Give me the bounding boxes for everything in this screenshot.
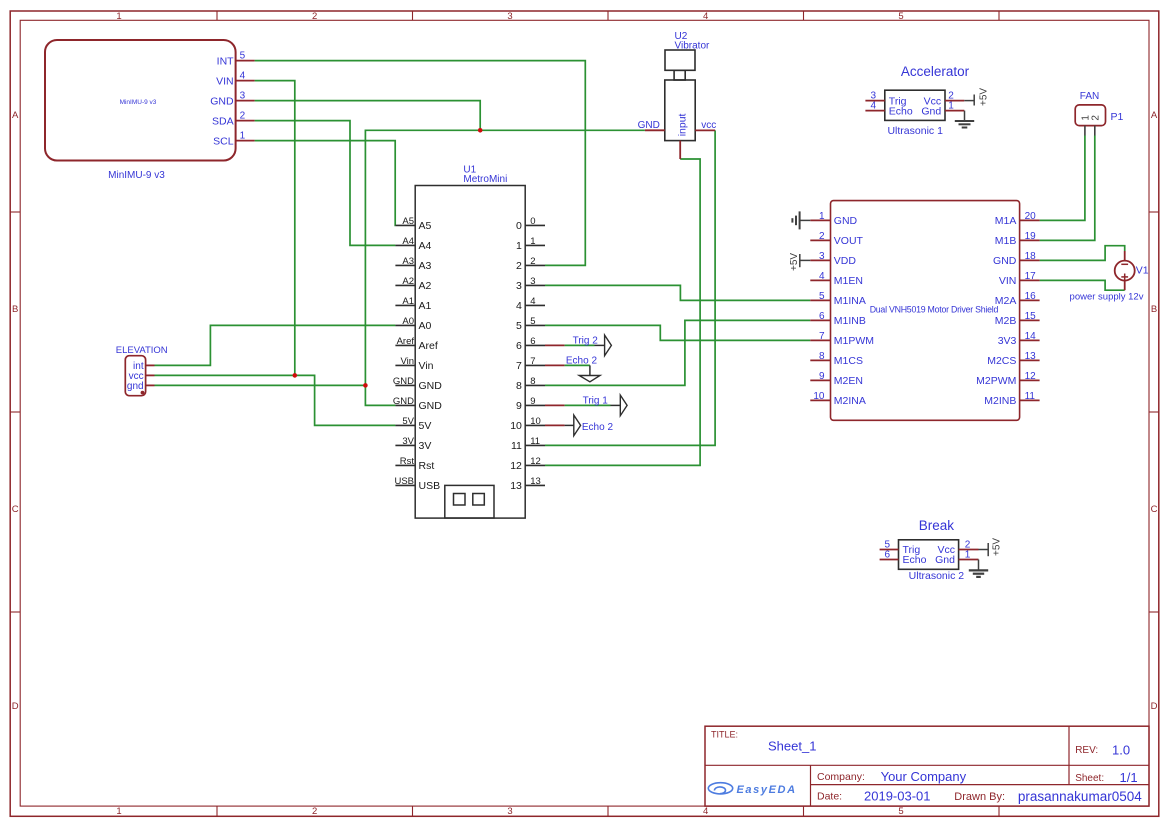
svg-text:Trig 2: Trig 2 — [573, 335, 599, 346]
svg-text:SCL: SCL — [213, 135, 234, 147]
svg-text:P1: P1 — [1111, 111, 1124, 123]
svg-text:7: 7 — [819, 331, 825, 342]
svg-text:A2: A2 — [402, 276, 414, 287]
svg-text:1: 1 — [948, 101, 954, 112]
svg-text:2: 2 — [516, 260, 522, 272]
svg-text:10: 10 — [530, 416, 541, 427]
svg-text:Your Company: Your Company — [881, 769, 967, 784]
svg-text:+5V: +5V — [992, 538, 1003, 556]
svg-text:REV:: REV: — [1075, 745, 1098, 756]
svg-text:6: 6 — [516, 340, 522, 352]
svg-text:Gnd: Gnd — [921, 105, 941, 117]
svg-text:4: 4 — [703, 11, 708, 22]
svg-text:5V: 5V — [402, 416, 414, 427]
svg-text:5: 5 — [898, 11, 903, 22]
svg-text:5: 5 — [819, 291, 825, 302]
svg-text:M2INB: M2INB — [984, 395, 1016, 407]
svg-text:D: D — [1151, 701, 1158, 712]
svg-text:V1: V1 — [1136, 265, 1149, 277]
svg-text:MinIMU-9 v3: MinIMU-9 v3 — [108, 170, 165, 181]
svg-text:1: 1 — [116, 11, 121, 22]
svg-text:+5V: +5V — [979, 88, 990, 106]
svg-text:3: 3 — [530, 276, 535, 287]
svg-text:Drawn By:: Drawn By: — [954, 791, 1005, 803]
svg-text:input: input — [676, 113, 688, 136]
svg-text:1: 1 — [819, 211, 825, 222]
svg-text:GND: GND — [419, 380, 443, 392]
svg-text:Gnd: Gnd — [935, 554, 955, 566]
svg-text:A: A — [1151, 110, 1158, 121]
svg-text:0: 0 — [516, 220, 522, 232]
svg-text:A3: A3 — [402, 256, 414, 267]
svg-text:EasyEDA: EasyEDA — [737, 784, 797, 796]
svg-text:2: 2 — [819, 231, 825, 242]
svg-text:3: 3 — [507, 11, 512, 22]
svg-text:11: 11 — [511, 440, 522, 452]
svg-text:6: 6 — [530, 336, 535, 347]
svg-text:M2INA: M2INA — [834, 395, 866, 407]
svg-text:GND: GND — [993, 255, 1017, 267]
svg-text:13: 13 — [1025, 351, 1037, 362]
svg-text:16: 16 — [1025, 291, 1037, 302]
svg-text:C: C — [1151, 504, 1158, 515]
svg-text:M1A: M1A — [995, 215, 1017, 227]
svg-text:FAN: FAN — [1080, 91, 1099, 102]
svg-text:GND: GND — [393, 396, 414, 407]
svg-text:GND: GND — [393, 376, 414, 387]
svg-text:8: 8 — [516, 380, 522, 392]
svg-text:4: 4 — [819, 271, 825, 282]
svg-text:M2EN: M2EN — [834, 375, 863, 387]
svg-text:3: 3 — [819, 251, 825, 262]
svg-text:9: 9 — [530, 396, 535, 407]
svg-text:ELEVATION: ELEVATION — [116, 345, 168, 356]
svg-text:Sheet_1: Sheet_1 — [768, 739, 816, 754]
svg-text:SDA: SDA — [212, 115, 234, 127]
svg-text:6: 6 — [884, 550, 890, 561]
svg-text:A5: A5 — [402, 216, 414, 227]
svg-text:19: 19 — [1025, 231, 1037, 242]
svg-text:5: 5 — [530, 316, 535, 327]
svg-text:3V: 3V — [402, 436, 414, 447]
svg-text:A3: A3 — [419, 260, 432, 272]
svg-text:3: 3 — [516, 280, 522, 292]
svg-text:20: 20 — [1025, 211, 1037, 222]
svg-text:2: 2 — [530, 256, 535, 267]
svg-text:4: 4 — [516, 300, 522, 312]
svg-text:M2B: M2B — [995, 315, 1017, 327]
svg-text:8: 8 — [819, 351, 825, 362]
svg-text:Vin: Vin — [400, 356, 414, 367]
svg-text:M1PWM: M1PWM — [834, 335, 874, 347]
svg-text:8: 8 — [530, 376, 535, 387]
svg-text:1: 1 — [965, 550, 971, 561]
svg-text:Rst: Rst — [419, 460, 435, 472]
svg-text:6: 6 — [819, 311, 825, 322]
svg-text:VIN: VIN — [999, 275, 1017, 287]
svg-text:GND: GND — [834, 215, 858, 227]
svg-text:VDD: VDD — [834, 255, 857, 267]
svg-text:5: 5 — [516, 320, 522, 332]
svg-text:B: B — [12, 304, 18, 315]
svg-text:4: 4 — [870, 101, 876, 112]
svg-text:Date:: Date: — [817, 791, 842, 803]
svg-text:3V3: 3V3 — [998, 335, 1017, 347]
svg-text:10: 10 — [510, 420, 522, 432]
svg-text:USB: USB — [419, 480, 441, 492]
svg-text:7: 7 — [530, 356, 535, 367]
svg-text:2: 2 — [1091, 115, 1102, 121]
svg-text:1.0: 1.0 — [1112, 743, 1130, 758]
svg-text:13: 13 — [530, 476, 541, 487]
svg-text:18: 18 — [1025, 251, 1037, 262]
svg-text:A0: A0 — [402, 316, 414, 327]
svg-text:B: B — [1151, 304, 1157, 315]
svg-text:4: 4 — [240, 71, 246, 82]
svg-text:Rst: Rst — [400, 456, 415, 467]
svg-text:2019-03-01: 2019-03-01 — [864, 789, 931, 804]
svg-text:14: 14 — [1025, 331, 1037, 342]
svg-text:1: 1 — [530, 236, 535, 247]
svg-text:GND: GND — [210, 95, 234, 107]
svg-text:M1CS: M1CS — [834, 355, 863, 367]
svg-text:17: 17 — [1025, 271, 1037, 282]
svg-text:GND: GND — [419, 400, 443, 412]
svg-text:2: 2 — [312, 11, 317, 22]
svg-text:4: 4 — [703, 806, 708, 817]
svg-text:0: 0 — [530, 216, 535, 227]
svg-text:10: 10 — [813, 391, 825, 402]
svg-text:INT: INT — [217, 55, 235, 67]
svg-text:MetroMini: MetroMini — [463, 174, 507, 185]
svg-text:2: 2 — [240, 111, 246, 122]
svg-text:M1INB: M1INB — [834, 315, 866, 327]
svg-text:1/1: 1/1 — [1120, 770, 1138, 785]
svg-text:12: 12 — [530, 456, 541, 467]
svg-text:Echo: Echo — [903, 554, 927, 566]
svg-text:A1: A1 — [402, 296, 414, 307]
svg-text:vcc: vcc — [701, 120, 716, 131]
svg-text:VOUT: VOUT — [834, 235, 864, 247]
svg-text:C: C — [12, 504, 19, 515]
svg-text:5V: 5V — [419, 420, 432, 432]
svg-text:Sheet:: Sheet: — [1075, 773, 1104, 784]
svg-text:15: 15 — [1025, 311, 1037, 322]
svg-text:Echo 2: Echo 2 — [566, 356, 598, 367]
svg-text:prasannakumar0504: prasannakumar0504 — [1018, 789, 1142, 804]
svg-text:GND: GND — [638, 120, 660, 131]
svg-text:Ultrasonic 1: Ultrasonic 1 — [887, 125, 943, 137]
svg-text:11: 11 — [1025, 391, 1036, 402]
svg-text:power supply 12v: power supply 12v — [1070, 292, 1144, 303]
svg-text:Break: Break — [919, 518, 955, 533]
svg-text:5: 5 — [240, 51, 246, 62]
svg-text:Accelerator: Accelerator — [901, 64, 970, 79]
svg-text:M1B: M1B — [995, 235, 1017, 247]
svg-text:13: 13 — [510, 480, 522, 492]
svg-text:3V: 3V — [419, 440, 432, 452]
svg-text:Vibrator: Vibrator — [675, 41, 711, 52]
svg-text:1: 1 — [516, 240, 522, 252]
svg-text:A0: A0 — [419, 320, 432, 332]
svg-text:MinIMU-9 v3: MinIMU-9 v3 — [120, 99, 157, 106]
svg-text:5: 5 — [898, 806, 903, 817]
svg-text:TITLE:: TITLE: — [711, 730, 738, 740]
svg-text:Trig 1: Trig 1 — [583, 396, 609, 407]
svg-text:1: 1 — [240, 131, 246, 142]
svg-text:11: 11 — [530, 436, 540, 447]
svg-text:M1INA: M1INA — [834, 295, 866, 307]
svg-text:D: D — [12, 701, 19, 712]
svg-text:M1EN: M1EN — [834, 275, 863, 287]
svg-text:4: 4 — [530, 296, 535, 307]
svg-text:1: 1 — [116, 806, 121, 817]
svg-text:Echo 2: Echo 2 — [582, 422, 614, 433]
svg-text:A4: A4 — [402, 236, 414, 247]
svg-text:Echo: Echo — [889, 105, 913, 117]
svg-text:9: 9 — [819, 371, 825, 382]
svg-text:+5V: +5V — [789, 253, 800, 271]
svg-text:7: 7 — [516, 360, 522, 372]
svg-text:3: 3 — [507, 806, 512, 817]
svg-text:Aref: Aref — [419, 340, 438, 352]
svg-text:2: 2 — [312, 806, 317, 817]
svg-text:Aref: Aref — [397, 336, 415, 347]
svg-text:VIN: VIN — [216, 75, 234, 87]
svg-text:12: 12 — [510, 460, 522, 472]
svg-text:A2: A2 — [419, 280, 432, 292]
svg-text:M2PWM: M2PWM — [976, 375, 1016, 387]
svg-text:M2CS: M2CS — [987, 355, 1016, 367]
svg-text:A: A — [12, 110, 19, 121]
svg-text:3: 3 — [240, 91, 246, 102]
svg-text:USB: USB — [394, 476, 414, 487]
svg-text:12: 12 — [1025, 371, 1037, 382]
svg-text:A5: A5 — [419, 220, 432, 232]
svg-text:Vin: Vin — [419, 360, 434, 372]
svg-text:A4: A4 — [419, 240, 432, 252]
svg-text:9: 9 — [516, 400, 522, 412]
svg-text:Company:: Company: — [817, 771, 865, 783]
svg-text:Ultrasonic 2: Ultrasonic 2 — [909, 570, 965, 582]
svg-text:Dual VNH5019 Motor Driver Shie: Dual VNH5019 Motor Driver Shield — [870, 304, 999, 314]
svg-text:gnd: gnd — [127, 381, 144, 392]
svg-text:A1: A1 — [419, 300, 432, 312]
